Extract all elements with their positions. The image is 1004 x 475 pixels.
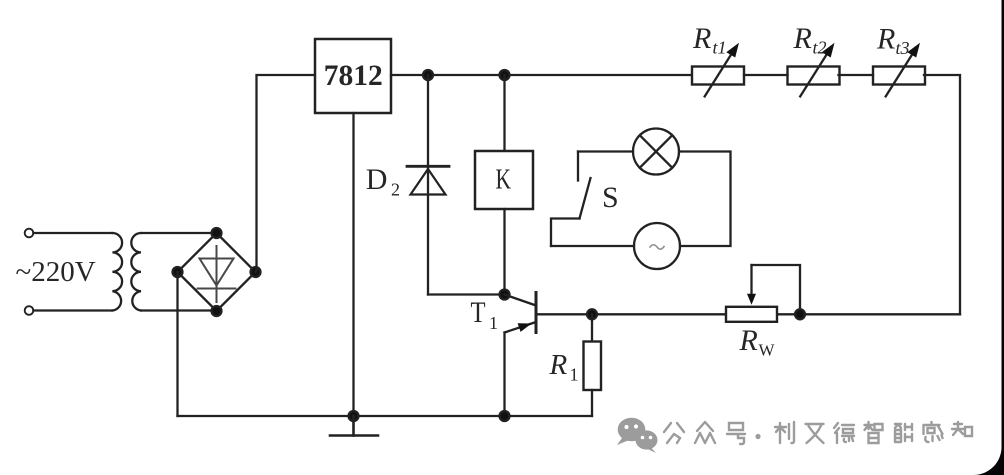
resistor Rt2 <box>788 43 840 97</box>
wire D2 to collector node <box>428 293 505 295</box>
wire lamp top <box>578 150 633 152</box>
wire ac to switch <box>551 245 634 247</box>
ground <box>330 416 378 436</box>
node collector <box>500 290 510 300</box>
wire bottom rail <box>178 415 593 417</box>
watermark logo <box>617 418 658 453</box>
wire rail Rt2-Rt3 <box>839 74 874 76</box>
transistor T1 <box>505 293 537 333</box>
svg-text:t2: t2 <box>813 38 827 58</box>
svg-text:D: D <box>366 163 388 196</box>
terminal J1 <box>25 229 34 238</box>
svg-text:2: 2 <box>391 179 400 199</box>
switch S <box>551 152 591 247</box>
potentiometer RW <box>726 265 800 322</box>
wire emitter down <box>503 333 505 417</box>
node ground junction <box>349 411 359 421</box>
node bridge left <box>173 267 183 277</box>
svg-text:~220V: ~220V <box>16 256 96 288</box>
svg-text:W: W <box>759 341 776 360</box>
svg-text:R: R <box>793 22 812 55</box>
terminal J2 <box>25 306 34 315</box>
node bridge right <box>251 267 261 277</box>
node bridge bottom <box>212 306 222 316</box>
svg-text:S: S <box>602 181 619 214</box>
wire 7812 gnd lead <box>352 113 354 416</box>
resistor Rt1 <box>692 43 744 97</box>
wire lamp right loop <box>679 152 731 247</box>
node bridge top <box>212 228 222 238</box>
svg-text:T: T <box>471 296 486 329</box>
diode D2 <box>407 75 449 295</box>
node R1 top <box>587 309 597 319</box>
node RW wiper tie <box>795 309 805 319</box>
lamp HL <box>633 129 679 175</box>
wire <box>34 309 113 311</box>
svg-text:t3: t3 <box>896 38 910 58</box>
wire +12V rail <box>391 74 692 76</box>
transformer primary <box>112 233 122 311</box>
bridge rectifier D1 <box>178 233 256 311</box>
svg-text:R: R <box>549 349 568 381</box>
resistor Rt3 <box>873 43 925 97</box>
ac source B1 <box>634 223 680 269</box>
watermark text <box>664 422 972 444</box>
relay coil K <box>475 75 533 295</box>
svg-text:1: 1 <box>489 313 498 333</box>
regulator U1 7812 <box>315 39 391 113</box>
wire rail Rt1-Rt2 <box>744 74 788 76</box>
wire base rail <box>537 313 960 315</box>
resistor R1 <box>584 314 602 416</box>
svg-text:R: R <box>739 324 758 357</box>
wire <box>256 75 316 272</box>
node D2 top <box>423 70 433 80</box>
node emitter-rail <box>500 411 510 421</box>
transformer secondary <box>131 233 141 311</box>
svg-text:7812: 7812 <box>324 60 383 92</box>
svg-text:1: 1 <box>570 365 579 385</box>
wire <box>141 309 217 311</box>
wire right edge down <box>924 75 960 314</box>
svg-text:R: R <box>876 23 895 56</box>
svg-text:R: R <box>692 22 711 55</box>
wire <box>176 272 178 416</box>
wire <box>141 232 217 234</box>
svg-text:K: K <box>496 164 512 196</box>
wire <box>34 232 113 234</box>
svg-text:t1: t1 <box>713 38 727 58</box>
node K top <box>500 70 510 80</box>
